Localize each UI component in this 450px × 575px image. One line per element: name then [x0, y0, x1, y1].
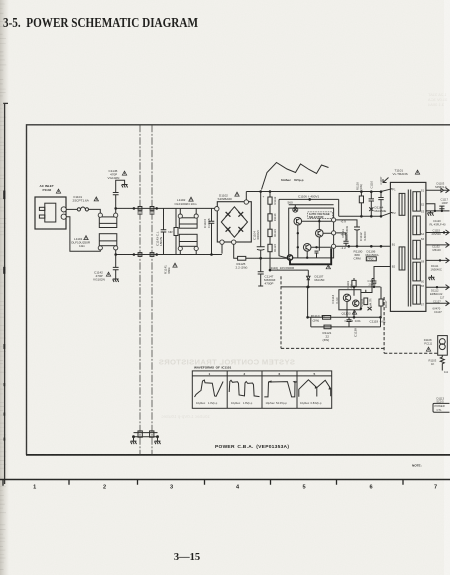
bottom AC rail	[116, 250, 222, 255]
ruler ticks	[3, 480, 403, 486]
resistor R1134	[268, 204, 277, 221]
top AC rail	[116, 208, 217, 213]
waveform panel 1	[195, 372, 224, 405]
dashed boundary left	[280, 276, 282, 348]
capacitor C1107 label	[434, 310, 442, 314]
capacitor C1115 label	[432, 228, 442, 236]
wire S2 stub	[336, 233, 346, 238]
label D1106 MA150CL (7V)	[366, 249, 380, 261]
label R1100 680 CRM	[354, 249, 363, 260]
resistor R1119	[346, 278, 356, 289]
resistor R1141 label	[164, 265, 172, 274]
warning triangle (D1108)	[426, 347, 430, 351]
wire R-chain to D1107 node	[270, 252, 308, 270]
bold collector run	[290, 248, 331, 264]
transformer T1101	[390, 168, 426, 311]
wire B2 from driver	[361, 267, 391, 294]
wire S1 to C1112	[336, 220, 357, 227]
left margin register line	[3, 103, 8, 484]
secondary out wire 6	[426, 286, 450, 288]
capacitor C1142	[93, 255, 119, 282]
faint bleed-through top right	[427, 92, 447, 107]
ground (bottom left)	[131, 441, 137, 444]
capacitor C1145	[108, 169, 125, 208]
varistor NR	[168, 208, 178, 254]
capacitor C1132 label	[432, 244, 441, 252]
diode D1102 label	[430, 219, 446, 227]
primary winding bar 2	[399, 247, 405, 270]
diode D1107	[307, 270, 325, 287]
capacitor C1112	[354, 227, 367, 246]
warning triangle (T1101)	[415, 170, 419, 174]
ground (C1117)	[428, 213, 434, 216]
warning triangle (R1141)	[173, 263, 177, 267]
resistor R1117	[379, 293, 388, 317]
bridge rectifier D1102	[215, 193, 252, 244]
wire bridge plus stub	[245, 192, 247, 200]
AVS terminal circle S2	[332, 231, 336, 235]
AVS terminal circle S1	[332, 218, 336, 222]
auto voltage selector box	[289, 208, 334, 258]
resistor R1105	[360, 298, 372, 307]
capacitor C1110	[369, 180, 374, 216]
chain line left	[139, 125, 141, 455]
transistor Q (AVS middle)	[316, 229, 324, 237]
capacitor C1116	[345, 317, 362, 327]
warning triangle (C1145)	[122, 171, 126, 175]
primary winding bar 1	[399, 193, 405, 215]
transistor Q (AVS lower)	[303, 244, 311, 252]
optocoupler D1108	[424, 336, 448, 356]
transistor Q1101 (bold)	[287, 255, 292, 260]
capacitor C1103 (across line)	[203, 209, 214, 256]
AC inlet P1102	[35, 184, 66, 229]
line filter L1101	[71, 213, 118, 250]
edge connector arrows	[446, 188, 450, 306]
secondary out wire 1b	[426, 204, 435, 211]
node line y287	[281, 286, 381, 288]
secondary rail to P3	[336, 245, 391, 247]
core lines	[408, 190, 410, 307]
paper grain overlay	[0, 0, 1, 1]
bottom feed-through block	[132, 431, 159, 441]
wire fuse to L1101	[89, 209, 101, 213]
ground (secondary)	[431, 275, 433, 277]
resistor chain R1133	[268, 192, 277, 205]
node line y327 (R1121)	[311, 317, 381, 342]
secondary winding bar S1	[413, 192, 420, 211]
fuse F1101	[73, 195, 90, 211]
AVS internal wires	[298, 218, 332, 258]
wire V- line	[246, 257, 287, 259]
capacitor C1104	[253, 192, 265, 259]
resistor R1125	[236, 256, 248, 269]
junction dot V-	[259, 257, 262, 260]
resistor R1124	[268, 237, 277, 252]
resistor R1103 zigzag	[429, 355, 449, 374]
secondary winding bar S5	[413, 285, 420, 304]
ground (C1145)	[122, 185, 128, 188]
thermistor 560	[288, 200, 334, 212]
ruler scale line	[0, 479, 450, 481]
wire Q1103 emitter	[347, 302, 354, 318]
capacitor C1111	[341, 225, 349, 246]
capacitor C1114	[368, 279, 377, 289]
driver block box	[331, 290, 361, 310]
ruler numbers	[33, 484, 437, 490]
secondary out wire 7	[426, 302, 450, 304]
transistor Q (AVS upper-left)	[294, 217, 302, 225]
warning triangle (L1102)	[189, 197, 193, 201]
C1106 sense line	[279, 194, 339, 258]
capacitor C1147	[258, 258, 276, 286]
ground (C1142)	[113, 279, 119, 282]
resistor R1110	[311, 314, 331, 322]
resistor R1123	[268, 221, 277, 237]
dashed boundary bottom	[281, 347, 384, 349]
capacitor C1143 (across line)	[155, 208, 166, 254]
warning triangle (L1101)	[84, 236, 88, 240]
secondary out wire 5	[426, 259, 450, 261]
warning triangle (D1102)	[235, 192, 239, 196]
capacitor C1127 label	[433, 299, 442, 310]
waveforms box	[192, 366, 331, 409]
main B+ rail	[246, 189, 392, 192]
diode D1110	[360, 307, 372, 310]
power ctl note	[433, 396, 450, 412]
diode D1104	[369, 206, 386, 214]
wire bridge minus leg	[222, 244, 238, 258]
junction dots AC rails	[133, 207, 136, 210]
secondary out wire 4	[426, 244, 450, 246]
secondary winding bar S4	[413, 262, 420, 281]
transistor Q1104	[353, 300, 359, 306]
ground (bottom right)	[155, 441, 161, 444]
diode D1112 label	[430, 288, 445, 299]
warning triangle (C1110)	[326, 265, 330, 269]
capacitor C1047	[378, 176, 383, 216]
resistor R1120	[356, 182, 364, 217]
node line y317	[308, 287, 381, 317]
continuation arrow (to P1)	[383, 178, 389, 183]
warning triangle (Q1103)	[352, 310, 356, 314]
page edge texture	[0, 4, 7, 570]
secondary winding bar S2	[413, 216, 420, 235]
waveform annotation sawtooth	[262, 163, 329, 190]
diode D1111 label	[431, 264, 442, 272]
B+ sub rail to P2	[339, 199, 393, 216]
line filter L1102	[175, 198, 199, 254]
waveform panel 4	[299, 372, 332, 405]
waveform panel 2	[229, 372, 259, 405]
warning triangle (C1142)	[106, 272, 110, 276]
transistor Q1103	[342, 294, 351, 315]
warning triangle (AC inlet)	[56, 189, 60, 193]
dashed boundary mid	[384, 297, 438, 353]
wire inlet to fuse	[66, 208, 77, 210]
wire inlet bottom to L1101	[66, 217, 100, 252]
chain line right	[151, 125, 153, 455]
secondary out wire 2 + capacitor C1117	[426, 197, 450, 212]
wire R1119 down	[353, 286, 355, 295]
secondary out wire 1 + diode D1103	[426, 181, 450, 192]
AVS terminal circle S3	[332, 244, 336, 248]
waveform panel 3	[264, 372, 297, 405]
feed-through marks on chain lines	[138, 207, 142, 211]
secondary winding bar S3	[413, 240, 420, 259]
schematic frame border	[27, 125, 450, 455]
secondary out wire 3	[426, 232, 450, 234]
warning triangle (fuse)	[94, 197, 98, 201]
